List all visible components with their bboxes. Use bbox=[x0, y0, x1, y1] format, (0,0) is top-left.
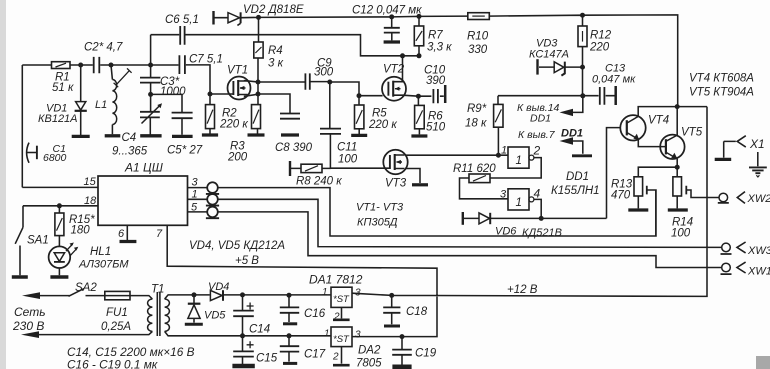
svg-text:Т1: Т1 bbox=[151, 284, 164, 296]
svg-text:220 к: 220 к bbox=[368, 119, 397, 131]
svg-text:6: 6 bbox=[118, 228, 125, 240]
svg-text:51 к: 51 к bbox=[52, 82, 74, 94]
svg-text:С15: С15 bbox=[256, 353, 278, 365]
svg-text:КП305Д: КП305Д bbox=[357, 217, 398, 229]
svg-text:330: 330 bbox=[468, 44, 488, 56]
svg-text:HL1: HL1 bbox=[90, 246, 111, 258]
svg-text:+5 В: +5 В bbox=[235, 255, 259, 267]
svg-text:К155ЛН1: К155ЛН1 bbox=[551, 185, 600, 197]
svg-text:3 к: 3 к bbox=[268, 58, 284, 70]
svg-text:1: 1 bbox=[516, 155, 522, 167]
svg-text:VT1: VT1 bbox=[227, 65, 248, 77]
svg-text:0,25А: 0,25А bbox=[101, 321, 131, 333]
svg-text:С18: С18 bbox=[406, 306, 428, 318]
svg-text:R10: R10 bbox=[467, 31, 489, 43]
svg-text:R7: R7 bbox=[428, 30, 443, 42]
svg-text:XW3: XW3 bbox=[747, 245, 770, 257]
svg-text:АЛ307БМ: АЛ307БМ bbox=[78, 259, 129, 271]
svg-text:390: 390 bbox=[426, 75, 446, 87]
svg-text:1: 1 bbox=[322, 287, 328, 298]
svg-text:220: 220 bbox=[589, 42, 610, 54]
svg-text:VT1- VТ3: VT1- VТ3 bbox=[356, 202, 404, 214]
svg-text:SA1: SA1 bbox=[27, 235, 49, 247]
svg-text:L1: L1 bbox=[95, 99, 107, 111]
svg-text:С16 - С19 0,1 мк: С16 - С19 0,1 мк bbox=[67, 358, 158, 369]
svg-text:А1 ЦШ: А1 ЦШ bbox=[124, 161, 164, 175]
svg-text:3: 3 bbox=[355, 330, 361, 341]
svg-text:2: 2 bbox=[533, 144, 541, 158]
svg-text:7: 7 bbox=[156, 228, 163, 240]
svg-text:VT4: VT4 bbox=[648, 115, 669, 127]
svg-text:2: 2 bbox=[333, 312, 340, 323]
svg-text:3: 3 bbox=[500, 189, 507, 201]
svg-text:КД521В: КД521В bbox=[522, 227, 562, 239]
svg-text:VD5: VD5 bbox=[204, 310, 226, 322]
svg-text:С2* 4,7: С2* 4,7 bbox=[84, 42, 123, 54]
svg-text:7805: 7805 bbox=[356, 358, 382, 369]
svg-text:3: 3 bbox=[355, 288, 361, 299]
svg-text:Сеть: Сеть bbox=[14, 305, 46, 319]
svg-text:100: 100 bbox=[671, 228, 691, 240]
svg-text:С16: С16 bbox=[304, 308, 326, 320]
svg-text:VD4, VD5 КД212А: VD4, VD5 КД212А bbox=[189, 240, 285, 252]
svg-text:1000: 1000 bbox=[160, 86, 186, 98]
svg-text:КВ121А: КВ121А bbox=[38, 113, 78, 125]
svg-text:*SТ: *SТ bbox=[333, 334, 350, 345]
svg-text:100: 100 bbox=[338, 154, 358, 166]
svg-text:VT2: VT2 bbox=[383, 64, 405, 76]
svg-text:2: 2 bbox=[332, 352, 339, 363]
svg-text:FU1: FU1 bbox=[106, 307, 128, 319]
svg-text:220 к: 220 к bbox=[219, 119, 248, 131]
svg-text:R11 620: R11 620 bbox=[453, 163, 496, 175]
svg-text:180: 180 bbox=[71, 225, 91, 237]
svg-text:R12: R12 bbox=[590, 30, 612, 42]
svg-text:С8 390: С8 390 bbox=[275, 142, 313, 154]
svg-text:470: 470 bbox=[611, 190, 631, 202]
svg-text:X1: X1 bbox=[749, 137, 765, 151]
svg-text:510: 510 bbox=[426, 122, 446, 134]
svg-text:DA1 7812: DA1 7812 bbox=[309, 273, 363, 287]
svg-text:R5: R5 bbox=[372, 108, 387, 120]
svg-text:VD2 Д818Е: VD2 Д818Е bbox=[243, 4, 304, 16]
svg-text:R4: R4 bbox=[268, 45, 283, 57]
svg-text:С17: С17 bbox=[304, 349, 326, 361]
svg-text:1: 1 bbox=[324, 329, 330, 340]
svg-text:С7 5,1: С7 5,1 bbox=[189, 54, 223, 66]
svg-text:VD6: VD6 bbox=[495, 226, 517, 238]
svg-text:+12 В: +12 В bbox=[507, 284, 538, 296]
svg-text:С6 5,1: С6 5,1 bbox=[165, 14, 199, 26]
svg-text:18: 18 bbox=[84, 195, 97, 207]
svg-text:1: 1 bbox=[192, 189, 198, 201]
svg-text:С14: С14 bbox=[249, 324, 270, 336]
svg-text:VD4: VD4 bbox=[208, 281, 229, 293]
svg-text:VТ3: VТ3 bbox=[385, 178, 407, 190]
svg-text:3,3 к: 3,3 к bbox=[427, 42, 452, 54]
svg-text:XW2: XW2 bbox=[747, 193, 770, 205]
svg-text:К выв.7: К выв.7 bbox=[518, 129, 556, 141]
svg-text:3: 3 bbox=[192, 177, 199, 189]
svg-text:VT4 КТ608А: VT4 КТ608А bbox=[689, 73, 754, 85]
svg-text:15: 15 bbox=[84, 176, 97, 188]
svg-text:4: 4 bbox=[534, 187, 541, 201]
svg-text:5: 5 bbox=[191, 202, 198, 214]
svg-text:*SТ: *SТ bbox=[333, 294, 350, 305]
svg-text:9...365: 9...365 bbox=[112, 146, 148, 158]
svg-text:6800: 6800 bbox=[43, 152, 67, 164]
svg-text:SA2: SA2 bbox=[75, 282, 97, 294]
svg-text:С12 0,047 мк: С12 0,047 мк bbox=[352, 5, 422, 17]
svg-text:DD1: DD1 bbox=[566, 171, 589, 183]
svg-text:КС147А: КС147А bbox=[529, 49, 569, 61]
svg-text:VT5: VT5 bbox=[681, 127, 703, 139]
svg-text:230 В: 230 В bbox=[12, 319, 44, 333]
svg-text:0,047 мк: 0,047 мк bbox=[592, 74, 636, 86]
svg-text:300: 300 bbox=[314, 67, 334, 79]
svg-text:DA2: DA2 bbox=[358, 345, 381, 357]
svg-text:1: 1 bbox=[501, 145, 507, 157]
svg-text:DD1: DD1 bbox=[561, 128, 583, 140]
svg-text:С4: С4 bbox=[122, 132, 137, 144]
svg-text:R9*: R9* bbox=[467, 103, 487, 115]
svg-text:XW1: XW1 bbox=[747, 266, 770, 278]
svg-text:18 к: 18 к bbox=[465, 118, 487, 130]
svg-text:С5* 27: С5* 27 bbox=[167, 145, 203, 157]
svg-text:С11: С11 bbox=[337, 142, 357, 154]
svg-text:VT5 КТ904А: VT5 КТ904А bbox=[689, 87, 754, 99]
svg-text:1: 1 bbox=[516, 197, 522, 209]
svg-text:200: 200 bbox=[227, 152, 248, 164]
svg-text:С19: С19 bbox=[415, 348, 437, 360]
svg-text:R8 240 к: R8 240 к bbox=[296, 176, 342, 188]
svg-text:DD1: DD1 bbox=[530, 113, 551, 125]
